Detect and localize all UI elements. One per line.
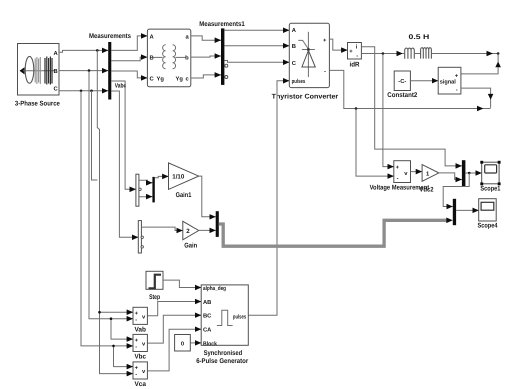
constant 0 block xyxy=(175,335,191,352)
svg-text:-C-: -C- xyxy=(398,78,406,85)
wire Measurements1 out3 to converter C xyxy=(224,61,289,63)
wire branch down to mux4 xyxy=(443,173,469,207)
vbc measurement block xyxy=(133,334,147,360)
selector2 block xyxy=(138,221,143,253)
wire source A to Measurements xyxy=(59,49,108,52)
wire Measurements out1 to transformer A xyxy=(111,36,147,51)
step block xyxy=(146,271,163,301)
current measurement idR xyxy=(348,43,362,69)
svg-text:b: b xyxy=(185,55,189,62)
wire phase C drop to Vbc- and Vca+ xyxy=(81,91,133,367)
wire idR - to inductor xyxy=(361,52,402,55)
svg-text:pulses: pulses xyxy=(292,78,306,85)
six pulse generator block xyxy=(196,285,248,365)
svg-text:-: - xyxy=(135,345,137,351)
Measurements1 mux bar xyxy=(199,21,245,85)
svg-text:Gain1: Gain1 xyxy=(176,192,192,199)
wire source B to Measurements xyxy=(59,69,108,72)
svg-text:AB: AB xyxy=(203,300,211,306)
svg-text:-: - xyxy=(456,88,458,94)
wire 6-pulse generator pulses up to converter xyxy=(248,81,289,315)
svg-text:Yg: Yg xyxy=(176,77,184,83)
wire transformer a to Measurements1 xyxy=(191,36,221,40)
inductor 0.5 H xyxy=(403,34,432,59)
svg-text:3-Phase Source: 3-Phase Source xyxy=(15,101,60,108)
svg-text:1/10: 1/10 xyxy=(172,173,185,180)
wire mux1 to gain1 xyxy=(155,176,169,177)
wire vbc out to BC xyxy=(147,315,201,343)
svg-text:idR: idR xyxy=(350,61,360,68)
svg-text:Gain: Gain xyxy=(184,243,197,250)
svg-text:Vdc2: Vdc2 xyxy=(419,187,433,194)
svg-text:B: B xyxy=(150,56,154,62)
wire tap to voltage measurement + xyxy=(383,54,394,167)
wire signal+ up to corner with up arrow xyxy=(461,62,501,74)
wire selector1 out1 to mux1 xyxy=(139,180,153,183)
wire mux4 to scope4 xyxy=(456,209,479,211)
svg-text:Vbc: Vbc xyxy=(134,354,146,361)
svg-text:0: 0 xyxy=(181,341,184,348)
svg-text:B: B xyxy=(292,44,296,50)
wire signal- down with arrow xyxy=(461,88,494,108)
svg-text:Synchronised: Synchronised xyxy=(204,350,243,357)
wire converter - long return xyxy=(329,70,490,109)
wire Measurements out3 to transformer C xyxy=(111,71,147,78)
wire source C to Measurements xyxy=(59,90,108,93)
svg-text:6-Pulse Generator: 6-Pulse Generator xyxy=(196,358,248,365)
svg-text:CA: CA xyxy=(203,327,212,334)
wire step to alpha_deg xyxy=(163,280,201,287)
wire Measurements out4 (Vabc) down to selector1 xyxy=(111,81,136,189)
svg-text:pulses: pulses xyxy=(233,313,246,320)
wire inductor to top-right corner xyxy=(431,52,499,62)
wire vab out to AB xyxy=(147,302,201,316)
wire vm out to vdc2 gain xyxy=(411,171,423,173)
svg-text:Yg: Yg xyxy=(157,77,165,83)
svg-text:+: + xyxy=(349,49,353,55)
wire 0 to Block xyxy=(190,342,201,344)
mux4 bar xyxy=(453,199,456,225)
wire constant2 to signal block xyxy=(410,80,438,82)
svg-text:B: B xyxy=(54,69,58,75)
gain Vdc2 xyxy=(419,165,438,194)
svg-text:Constant2: Constant2 xyxy=(387,92,417,99)
wire vdc2 to scope mux xyxy=(439,173,462,180)
wire selector2 to gain xyxy=(141,227,182,230)
wire Measurements out2 to transformer B xyxy=(111,57,147,61)
wire - tap down to voltage measurement - xyxy=(356,109,394,177)
mux1 bar xyxy=(152,177,154,203)
thyristor converter block xyxy=(272,23,339,100)
svg-text:0.5 H: 0.5 H xyxy=(409,34,430,41)
selector1 block xyxy=(136,174,141,206)
wire Measurements1 out1 to converter A xyxy=(224,29,289,31)
gain triangle 2 xyxy=(183,221,199,249)
svg-text:-: - xyxy=(356,54,358,60)
wire Measurements out5 down to selector2 xyxy=(111,91,138,237)
scope1 block selected xyxy=(480,161,500,193)
svg-text:Step: Step xyxy=(149,294,160,301)
wire Measurements1 out2 to converter B xyxy=(224,45,289,47)
constant2 block xyxy=(387,71,417,99)
svg-text:2: 2 xyxy=(186,228,190,235)
svg-text:Thyristor Converter: Thyristor Converter xyxy=(272,94,339,101)
gray thick wire from mux2 to mux4 xyxy=(219,218,453,247)
svg-text:Vab: Vab xyxy=(134,327,146,334)
svg-text:Scope1: Scope1 xyxy=(480,185,500,192)
3-phase source block xyxy=(15,44,60,108)
svg-text:alpha_deg: alpha_deg xyxy=(203,285,226,292)
scope mux bar xyxy=(462,160,466,186)
svg-text:Vca: Vca xyxy=(134,381,146,388)
wire phase A drop to Vab+ and Vca- xyxy=(97,50,133,373)
svg-text:Block: Block xyxy=(203,340,218,347)
wire gain to mux2 xyxy=(199,229,216,231)
svg-text:+: + xyxy=(455,74,459,80)
voltage measurement block xyxy=(370,161,430,192)
wire transformer b to Measurements1 xyxy=(191,56,221,57)
svg-text:BC: BC xyxy=(203,313,212,320)
wire converter + to idR xyxy=(329,39,347,50)
controlled source signal block xyxy=(438,67,461,94)
scope4 block xyxy=(478,199,498,230)
wire gain1 down to mux2 xyxy=(199,176,216,217)
wire scope mux to scope1 xyxy=(465,172,481,175)
svg-text:-: - xyxy=(135,318,137,324)
mux2 bar xyxy=(216,211,219,237)
svg-text:Scope4: Scope4 xyxy=(478,222,498,229)
vab measurement block xyxy=(133,307,147,333)
wire short stub drop xyxy=(92,91,98,180)
wire idR i out to scope mux xyxy=(361,47,462,166)
svg-text:-: - xyxy=(324,69,326,75)
wire phase B drop to Vab- and Vbc+ xyxy=(89,71,133,340)
transformer block Yg Yg xyxy=(147,29,190,87)
svg-text:-: - xyxy=(135,372,137,378)
wire transformer c to Measurements1 xyxy=(191,75,221,78)
svg-text:-: - xyxy=(397,176,399,182)
svg-text:Measurements1: Measurements1 xyxy=(199,21,245,28)
wire vca out to CA xyxy=(147,329,201,371)
gain1 triangle 1/10 xyxy=(169,163,199,199)
Measurements mux bar xyxy=(89,33,131,100)
vca measurement block xyxy=(133,362,147,388)
svg-text:signal: signal xyxy=(440,78,456,85)
svg-text:Measurements: Measurements xyxy=(89,33,131,40)
wire selector1 out2 to mux1 xyxy=(139,196,153,198)
